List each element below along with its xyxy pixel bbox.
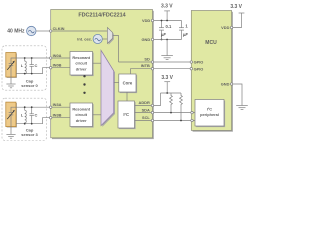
junction pullup rail bbox=[166, 92, 168, 94]
svg-text:MCU: MCU bbox=[205, 40, 217, 46]
pin IN3B bbox=[50, 113, 62, 119]
svg-text:Core: Core bbox=[123, 81, 133, 86]
capacitor C2 1 uF bbox=[179, 21, 188, 40]
wire core to I2C block bbox=[126, 92, 128, 101]
svg-text:IN3A: IN3A bbox=[53, 102, 62, 107]
wire INTB bbox=[131, 69, 153, 74]
inductor L3 bbox=[21, 107, 27, 124]
svg-text:VDD: VDD bbox=[142, 18, 150, 23]
junction L0 top bbox=[24, 57, 26, 59]
svg-text:3.3 V: 3.3 V bbox=[161, 75, 173, 81]
wire int osc to clock mux bbox=[102, 38, 107, 40]
svg-text:SD: SD bbox=[144, 56, 150, 61]
pin SDA of MCU bbox=[191, 111, 193, 113]
pullup rail bbox=[161, 92, 182, 94]
pin SD bbox=[144, 56, 153, 63]
wire GND rail bbox=[154, 39, 182, 41]
junction R2/SCL bbox=[180, 120, 182, 122]
label cap sensor 0 bbox=[21, 78, 38, 88]
svg-text:driver: driver bbox=[76, 66, 87, 71]
svg-text:3.3 V: 3.3 V bbox=[230, 4, 242, 10]
resistor R2 (SCL pullup) bbox=[180, 93, 183, 121]
ground U1 bbox=[161, 40, 173, 60]
junction C3 bottom bbox=[31, 123, 33, 125]
pin GPIO1 bbox=[190, 60, 203, 65]
svg-text:VDD: VDD bbox=[221, 25, 229, 30]
pin VDD of MCU bbox=[221, 25, 233, 30]
svg-text:driver: driver bbox=[76, 118, 87, 123]
svg-text:FDC2114/FDC2214: FDC2114/FDC2214 bbox=[78, 13, 125, 19]
resistor R1 (SDA pullup) bbox=[170, 93, 173, 113]
channel mux M2 bbox=[101, 50, 115, 127]
pin SCL bbox=[142, 115, 154, 122]
sensor 0 electrode (variable capacitor) bbox=[6, 53, 17, 85]
capacitor C1 0.1 uF bbox=[159, 21, 172, 40]
svg-text:circuit: circuit bbox=[75, 61, 87, 66]
svg-text:CLKIN: CLKIN bbox=[53, 26, 65, 31]
cap sensor 3 dashed enclosure bbox=[2, 98, 47, 140]
pin IN0A bbox=[50, 53, 62, 59]
svg-text:sensor 0: sensor 0 bbox=[21, 83, 38, 88]
svg-text:C: C bbox=[35, 112, 38, 117]
svg-text:L: L bbox=[21, 112, 24, 117]
wire VDD rail bbox=[154, 20, 182, 22]
wire ADDR to 3.3V pullup rail bbox=[154, 93, 161, 106]
svg-text:GPIO: GPIO bbox=[194, 60, 204, 65]
wire ADDR bbox=[135, 105, 153, 107]
svg-text:SCL: SCL bbox=[142, 115, 150, 120]
wire driver0 to mux bbox=[93, 62, 102, 64]
pin IN0B bbox=[50, 63, 62, 69]
ground sensor 3 bbox=[6, 134, 15, 138]
ground sensor 0 bbox=[6, 84, 15, 88]
svg-text:1: 1 bbox=[185, 24, 188, 29]
svg-text:IN0B: IN0B bbox=[53, 63, 62, 68]
pin CLKIN bbox=[50, 26, 65, 32]
svg-text:Int. osc.: Int. osc. bbox=[77, 37, 92, 42]
wire IN3B to driver bbox=[52, 117, 70, 119]
resonant circuit driver ch3 bbox=[70, 103, 94, 128]
clock mux M1 bbox=[107, 28, 113, 45]
svg-text:ADDR: ADDR bbox=[139, 100, 150, 105]
wire IN0B to driver bbox=[52, 67, 70, 69]
resonant circuit driver ch0 bbox=[70, 52, 94, 77]
wire driver3 to mux bbox=[93, 114, 102, 116]
pin GND of MCU bbox=[221, 82, 233, 87]
svg-text:40 MHz: 40 MHz bbox=[7, 29, 25, 35]
junction L3 bottom bbox=[24, 123, 26, 125]
svg-text:GND: GND bbox=[221, 82, 230, 87]
wire sensor3 bottom rail bbox=[16, 118, 51, 124]
svg-text:Resonant: Resonant bbox=[72, 107, 90, 112]
svg-text:µF: µF bbox=[160, 32, 166, 37]
wire SD to MCU GPIO bbox=[154, 61, 192, 63]
capacitor C0 bbox=[30, 58, 38, 74]
junction GND/ground bbox=[166, 39, 168, 41]
wire X1 to CLKIN bbox=[36, 30, 51, 32]
svg-text:Resonant: Resonant bbox=[72, 55, 90, 60]
ellipsis dots between channels bbox=[83, 75, 85, 94]
svg-text:0.1: 0.1 bbox=[165, 24, 171, 29]
I2C peripheral block bbox=[195, 100, 225, 128]
IC U1 FDC2114/FDC2214 body bbox=[51, 10, 154, 140]
wire SD from core area to pin bbox=[119, 61, 153, 63]
svg-text:C: C bbox=[35, 63, 38, 68]
pin VDD of U1 bbox=[142, 18, 154, 23]
svg-text:INTB: INTB bbox=[141, 63, 150, 68]
pin INTB bbox=[141, 63, 154, 70]
junction R1/SDA bbox=[170, 112, 172, 114]
svg-text:I²C: I²C bbox=[207, 107, 212, 112]
junction C3 top bbox=[31, 106, 33, 108]
wire SDA bbox=[135, 112, 153, 114]
label cap sensor 3 bbox=[21, 128, 38, 138]
svg-text:circuit: circuit bbox=[75, 112, 87, 117]
junction VDD/3.3V bbox=[166, 20, 168, 22]
wire MCU GND to ground bbox=[233, 84, 242, 106]
svg-text:peripheral: peripheral bbox=[200, 112, 219, 117]
junction L0 bottom bbox=[24, 73, 26, 75]
cap sensor 0 dashed enclosure bbox=[2, 46, 47, 90]
inductor L0 bbox=[21, 58, 27, 74]
wire sensor0 top rail bbox=[16, 57, 51, 59]
svg-text:µF: µF bbox=[182, 32, 188, 37]
svg-text:GPIO: GPIO bbox=[194, 66, 204, 71]
ground MCU bbox=[236, 106, 248, 110]
svg-text:SDA: SDA bbox=[142, 107, 150, 112]
svg-text:L: L bbox=[21, 63, 24, 68]
wire SDA to MCU bbox=[154, 112, 195, 114]
junction C1 bottom bbox=[161, 39, 163, 41]
pin ADDR bbox=[139, 100, 154, 107]
wire sensor0 bottom rail bbox=[16, 68, 51, 74]
wire CLKIN to clock mux bbox=[52, 30, 108, 32]
wire clock mux output to core/SD line bbox=[113, 36, 119, 63]
svg-text:IN0A: IN0A bbox=[53, 53, 62, 58]
pin SDA bbox=[142, 107, 154, 114]
pin GPIO2 bbox=[190, 66, 203, 71]
capacitor C3 bbox=[30, 107, 38, 124]
junction C1 top bbox=[161, 20, 163, 22]
svg-text:GND: GND bbox=[142, 37, 151, 42]
svg-text:I²C: I²C bbox=[123, 112, 129, 117]
pin IN3A bbox=[50, 102, 62, 108]
pin SCL of MCU bbox=[191, 119, 193, 121]
wire MCU VDD to 3.3V bbox=[233, 13, 242, 28]
junction L3 top bbox=[24, 106, 26, 108]
wire mux to core bbox=[114, 82, 119, 84]
junction C0 top bbox=[31, 57, 33, 59]
svg-text:IN3B: IN3B bbox=[53, 113, 62, 118]
supply 3.3V for U1 bbox=[161, 3, 173, 20]
supply 3.3V for MCU bbox=[230, 4, 244, 13]
MCU U2 body bbox=[191, 11, 233, 132]
wire INTB to MCU GPIO bbox=[154, 68, 192, 70]
pin GND of U1 bbox=[142, 37, 154, 42]
wire IN0A to driver bbox=[52, 57, 70, 59]
junction C0 bottom bbox=[31, 73, 33, 75]
core block bbox=[119, 74, 137, 93]
svg-text:sensor 3: sensor 3 bbox=[21, 132, 38, 137]
internal oscillator bbox=[77, 34, 102, 43]
wire SCL bbox=[135, 120, 153, 122]
oscillator X1 40 MHz bbox=[7, 26, 36, 35]
wire IN3A to driver bbox=[52, 106, 70, 108]
sensor 3 electrode (variable capacitor) bbox=[6, 102, 17, 134]
wire SCL to MCU bbox=[154, 120, 195, 122]
wire sensor3 top rail bbox=[16, 106, 51, 108]
svg-text:3.3 V: 3.3 V bbox=[161, 3, 173, 9]
supply 3.3V for pullups bbox=[161, 75, 173, 93]
I2C block bbox=[118, 101, 136, 129]
